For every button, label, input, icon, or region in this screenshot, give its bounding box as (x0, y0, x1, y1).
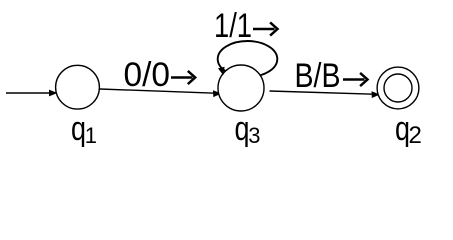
svg-text:1/1: 1/1 (214, 7, 252, 45)
wire q1 to q3 (100, 89, 222, 97)
svg-text:0/0: 0/0 (124, 56, 171, 94)
wire q3 to q2 (270, 91, 381, 98)
state label q3 (235, 110, 261, 148)
label 0/0 (124, 56, 196, 94)
state q3 (218, 65, 264, 111)
svg-text:1: 1 (85, 123, 97, 148)
svg-text:3: 3 (248, 123, 260, 148)
label B/B (295, 57, 368, 95)
self-loop on q3 (218, 41, 278, 77)
state q1 (56, 65, 100, 109)
svg-text:2: 2 (409, 122, 422, 149)
svg-text:q: q (71, 110, 86, 148)
state label q1 (71, 110, 97, 148)
start arrow (6, 90, 58, 97)
accepting state q2 (double circle) (377, 67, 419, 109)
self-loop arrowhead (218, 67, 225, 76)
label 1/1 (214, 7, 278, 45)
svg-text:B/B: B/B (295, 57, 341, 95)
state label q2 (395, 110, 422, 149)
